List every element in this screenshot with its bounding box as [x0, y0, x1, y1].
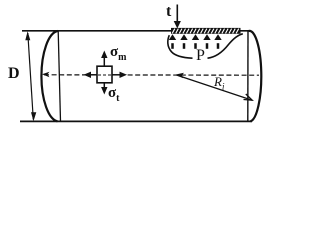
pressure arrow 3 — [192, 34, 199, 40]
element arrow down — [103, 83, 105, 89]
radius right arrowhead — [244, 94, 253, 100]
element arrow left — [90, 74, 97, 76]
pressure region boundary left curve — [168, 35, 193, 58]
cylinder bottom line — [20, 120, 252, 122]
label Ri — [214, 74, 224, 92]
centerline left arrowhead — [42, 72, 50, 77]
right end cap arc — [249, 31, 262, 121]
centerline (dashed axis) — [44, 74, 259, 76]
cylinder top line — [22, 30, 249, 32]
pressure arrow 1 — [169, 34, 176, 40]
left joint line — [58, 31, 60, 121]
pressure arrow 5 — [214, 34, 221, 40]
pressure arrow 2 — [180, 34, 187, 40]
dimension arrow bottom — [31, 112, 36, 121]
t arrow — [176, 5, 178, 23]
label t — [166, 3, 171, 21]
label sigma_m — [110, 44, 127, 63]
dimension line D — [28, 33, 34, 120]
dimension arrow top — [25, 31, 30, 40]
radius line Ri — [177, 75, 252, 100]
element arrow up — [103, 57, 105, 67]
left end cap arc — [41, 31, 57, 121]
label D — [8, 65, 20, 83]
pressure region boundary right curve — [208, 34, 243, 58]
pressure arrow 4 — [203, 34, 210, 40]
label sigma_t — [108, 85, 120, 104]
stress element square — [97, 66, 112, 83]
label P — [196, 47, 205, 65]
radius left arrowhead — [175, 73, 184, 78]
element arrow right — [112, 74, 121, 76]
wall hatch band — [171, 28, 241, 34]
right joint line — [247, 31, 249, 121]
